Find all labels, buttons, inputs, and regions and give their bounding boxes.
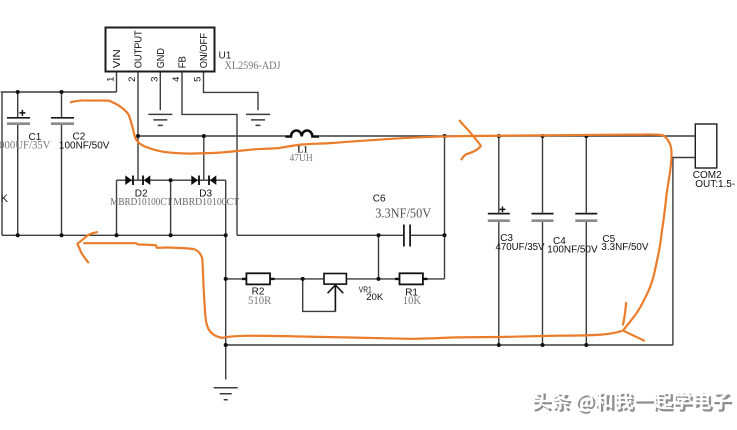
- svg-text:MBRD10100CT: MBRD10100CT: [110, 196, 172, 208]
- svg-text:K: K: [1, 193, 9, 205]
- svg-text:OUTPUT: OUTPUT: [133, 30, 145, 69]
- wire: C5 leads: [585, 136, 587, 345]
- svg-text:FB: FB: [177, 56, 189, 68]
- annotation: left arrowhead: [77, 232, 97, 262]
- svg-text:ON/OFF: ON/OFF: [198, 33, 210, 68]
- annotation: orange highlighter loop stroke: [71, 100, 672, 340]
- potentiometer VR1: [324, 274, 384, 312]
- svg-text:470UF/35V: 470UF/35V: [496, 242, 545, 253]
- wire: FB node bus to C6: [237, 234, 445, 236]
- wire: C2 leads: [61, 92, 63, 235]
- wire: VR1 wiper loop: [303, 279, 336, 312]
- svg-text:2: 2: [127, 77, 138, 82]
- inductor L1: [285, 130, 319, 164]
- wire: pin5 ON/OFF route to ground: [204, 72, 259, 111]
- capacitor C5: [575, 214, 649, 254]
- wire: bottom ground rail: [226, 344, 673, 346]
- wire: output sense vertical (C6/R1 right): [444, 136, 446, 279]
- wire: pin4 FB route down and right: [182, 72, 237, 236]
- svg-text:VIN: VIN: [111, 49, 123, 68]
- wire: COM2 return riser: [673, 158, 695, 346]
- op-amp/regulator U1 box: [106, 28, 215, 72]
- svg-text:100NF/50V: 100NF/50V: [547, 245, 598, 256]
- svg-text:3: 3: [150, 77, 161, 82]
- wire: C3 leads: [498, 136, 500, 345]
- connector COM2: [693, 124, 735, 190]
- wire: C4 leads: [542, 136, 544, 345]
- svg-text:47UH: 47UH: [290, 152, 313, 164]
- diode D3 (dual, MBRD10100CT): [173, 175, 239, 208]
- ground symbol (bottom): [214, 388, 238, 400]
- capacitor C6: [373, 194, 432, 247]
- annotation: checkmark on output rail: [460, 121, 481, 160]
- svg-text:1: 1: [106, 77, 117, 82]
- wire: diode row: [117, 179, 226, 181]
- svg-text:MBRD10100CT: MBRD10100CT: [173, 196, 239, 208]
- svg-text:GND: GND: [155, 48, 167, 69]
- wire: D2/D3 anode mid vertical: [170, 180, 172, 235]
- annotation: fork tick and tail: [623, 303, 644, 341]
- capacitor C1: [0, 110, 51, 152]
- svg-text:5: 5: [193, 77, 204, 82]
- svg-text:20K: 20K: [366, 292, 384, 303]
- svg-text:3.3NF/50V: 3.3NF/50V: [375, 205, 431, 220]
- svg-text:1000UF/35V: 1000UF/35V: [0, 140, 51, 152]
- wire: C1 leads: [17, 92, 19, 235]
- svg-text:510R: 510R: [248, 293, 271, 307]
- svg-text:10K: 10K: [403, 293, 422, 307]
- wire: left edge component lead (cut off): [1, 92, 3, 235]
- ground symbol (pin3 GND): [148, 114, 172, 125]
- wire: pin2 OUTPUT down to D2 cathode: [137, 72, 139, 181]
- wire: ground vertical: [225, 180, 227, 379]
- wire: D3 cathode up to rail: [203, 136, 205, 180]
- wire: VIN input rail: [1, 72, 117, 93]
- wire: D2 anode left vertical: [116, 180, 118, 235]
- diode D2 (dual, MBRD10100CT): [110, 175, 172, 208]
- resistor R2: [242, 273, 275, 307]
- wire: FB divider tap vertical: [378, 235, 380, 279]
- svg-text:100NF/50V: 100NF/50V: [59, 141, 110, 152]
- capacitor C4: [532, 214, 598, 256]
- wire: output/switch rail to COM2: [138, 135, 695, 137]
- resistor R1: [395, 273, 427, 307]
- wire: pin3 GND down: [159, 72, 161, 111]
- wire: resistor divider row: [226, 278, 445, 280]
- wire: diode anode ground bus: [2, 234, 226, 236]
- svg-text:C6: C6: [373, 194, 386, 205]
- svg-text:4: 4: [171, 77, 182, 82]
- capacitor C2: [51, 118, 110, 152]
- ground symbol (pin5 ON/OFF): [246, 114, 270, 125]
- svg-text:OUT:1.5-: OUT:1.5-: [695, 179, 735, 190]
- svg-text:3.3NF/50V: 3.3NF/50V: [601, 242, 648, 253]
- capacitor C3: [488, 207, 545, 254]
- svg-text:XL2596-ADJ: XL2596-ADJ: [225, 58, 281, 72]
